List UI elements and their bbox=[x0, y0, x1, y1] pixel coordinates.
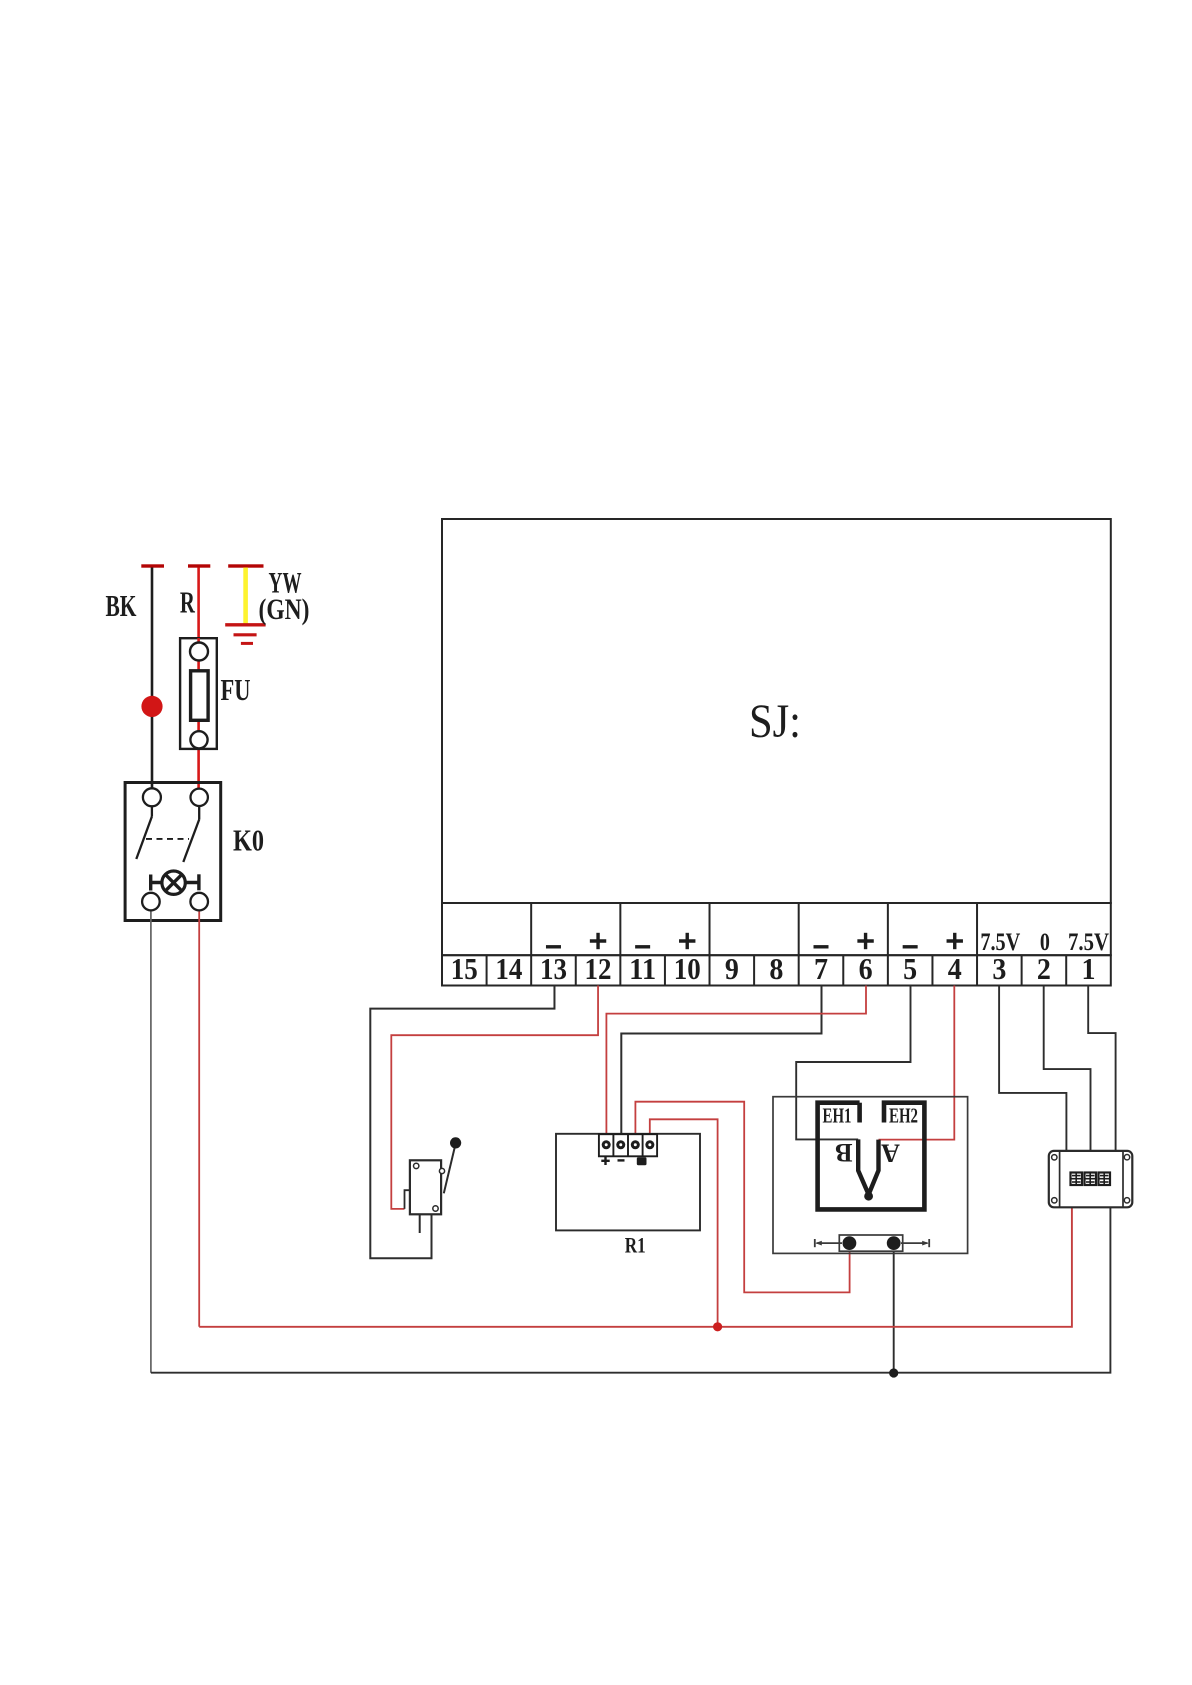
svg-text:EH2: EH2 bbox=[889, 1103, 918, 1127]
svg-text:1: 1 bbox=[1082, 951, 1096, 986]
svg-text:7.5V: 7.5V bbox=[1068, 929, 1109, 956]
svg-text:BK: BK bbox=[106, 588, 137, 623]
svg-text:15: 15 bbox=[451, 951, 478, 986]
svg-text:12: 12 bbox=[585, 951, 612, 986]
svg-text:10: 10 bbox=[674, 951, 701, 986]
svg-text:K0: K0 bbox=[233, 823, 264, 858]
svg-text:2: 2 bbox=[1037, 951, 1051, 986]
svg-text:R: R bbox=[180, 585, 195, 620]
svg-text:14: 14 bbox=[495, 951, 522, 986]
svg-text:A: A bbox=[881, 1139, 900, 1168]
svg-text:B: B bbox=[835, 1138, 852, 1167]
svg-text:0: 0 bbox=[1040, 929, 1050, 956]
svg-text:R1: R1 bbox=[625, 1233, 646, 1258]
svg-text:6: 6 bbox=[859, 951, 873, 986]
svg-text:7: 7 bbox=[814, 951, 828, 986]
svg-text:3: 3 bbox=[992, 951, 1006, 986]
svg-text:5: 5 bbox=[903, 951, 917, 986]
svg-text:EH1: EH1 bbox=[823, 1103, 852, 1127]
svg-text:11: 11 bbox=[629, 951, 656, 986]
svg-text:9: 9 bbox=[725, 951, 739, 986]
svg-text:(GN): (GN) bbox=[259, 593, 310, 626]
svg-text:SJ:: SJ: bbox=[749, 695, 801, 748]
svg-text:FU: FU bbox=[221, 672, 251, 707]
svg-text:7.5V: 7.5V bbox=[980, 929, 1020, 956]
svg-text:4: 4 bbox=[948, 951, 962, 986]
svg-text:8: 8 bbox=[769, 951, 783, 986]
svg-text:13: 13 bbox=[540, 951, 567, 986]
